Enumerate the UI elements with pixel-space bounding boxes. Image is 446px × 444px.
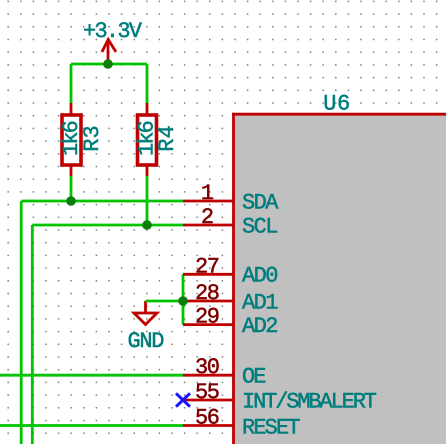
svg-text:R4: R4 bbox=[155, 125, 180, 151]
pin 28 line bbox=[183, 300, 234, 303]
power symbol +3.3V bbox=[102, 40, 116, 65]
svg-text:56: 56 bbox=[195, 406, 220, 431]
svg-text:55: 55 bbox=[195, 380, 220, 405]
junction GND/AD1 bbox=[178, 296, 188, 306]
no-connect X on pin 55 bbox=[176, 393, 190, 406]
svg-text:SCL: SCL bbox=[242, 214, 279, 239]
resistor R4 bbox=[138, 103, 157, 177]
wire GND to AD1 bbox=[146, 300, 184, 303]
svg-text:INT/SMBALERT: INT/SMBALERT bbox=[242, 389, 377, 414]
pin 56 line bbox=[183, 424, 234, 427]
wire RESET net bbox=[0, 424, 184, 427]
wire AD0-AD1-AD2 vertical tie bbox=[182, 274, 185, 324]
wire SCL net vertical down left side bbox=[31, 225, 34, 444]
svg-text:28: 28 bbox=[195, 281, 220, 306]
svg-text:1: 1 bbox=[201, 181, 214, 206]
wire from top node down to R3 bbox=[70, 64, 73, 104]
pin 29 line bbox=[183, 323, 234, 326]
svg-text:U6: U6 bbox=[323, 92, 350, 117]
svg-text:OE: OE bbox=[242, 365, 267, 390]
svg-text:AD2: AD2 bbox=[242, 314, 279, 339]
svg-text:2: 2 bbox=[201, 205, 214, 230]
svg-text:GND: GND bbox=[128, 329, 165, 354]
svg-text:AD0: AD0 bbox=[242, 264, 279, 289]
junction at power node bbox=[103, 59, 113, 69]
pin 55 line bbox=[183, 399, 234, 402]
junction R3/SDA bbox=[66, 196, 76, 206]
svg-text:+3.3V: +3.3V bbox=[83, 19, 143, 44]
wire SCL net horizontal bbox=[32, 224, 183, 227]
junction R4/SCL bbox=[142, 220, 152, 230]
wire from R3 down to SDA net bbox=[70, 176, 73, 201]
wire from top node down to R4 bbox=[146, 64, 149, 104]
svg-text:AD1: AD1 bbox=[242, 290, 279, 315]
svg-text:R3: R3 bbox=[80, 125, 105, 151]
svg-text:SDA: SDA bbox=[242, 190, 279, 215]
pin 27 line bbox=[183, 273, 234, 276]
ground bbox=[134, 301, 157, 325]
wire SDA net horizontal bbox=[21, 200, 183, 203]
wire SDA net vertical down left side bbox=[20, 201, 23, 444]
wire top horizontal from R3 to R4 bbox=[71, 63, 147, 66]
wire OE net bbox=[0, 374, 184, 377]
svg-text:27: 27 bbox=[195, 254, 220, 279]
resistor R3 bbox=[62, 103, 81, 177]
svg-text:29: 29 bbox=[195, 305, 220, 330]
svg-text:30: 30 bbox=[195, 355, 220, 380]
pin 2 line bbox=[183, 224, 234, 227]
wire from R4 down to SCL net bbox=[146, 176, 149, 225]
IC U6 body bbox=[232, 113, 446, 444]
pin 30 line bbox=[183, 374, 234, 377]
pin 1 line bbox=[183, 200, 234, 203]
svg-text:RESET: RESET bbox=[242, 416, 301, 441]
